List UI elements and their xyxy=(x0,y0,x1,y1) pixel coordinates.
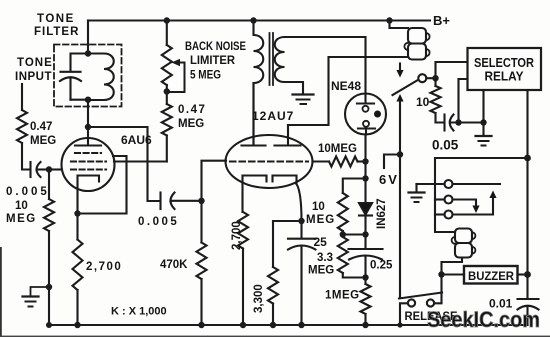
V2 right cathode bracket xyxy=(273,176,297,185)
transformer T1 secondary xyxy=(275,37,303,93)
wire cathode junction to cap 25 xyxy=(300,221,302,238)
junction bottom rail / input branch xyxy=(46,322,52,328)
junction R11 / C4 bottom xyxy=(362,274,368,280)
junction buzzer left xyxy=(438,271,444,277)
svg-text:1MEG: 1MEG xyxy=(325,290,360,302)
ground G1 bottom left xyxy=(23,287,50,307)
wire buzzer junction to buzzer box xyxy=(442,273,465,275)
tone filter dashed enclosure xyxy=(54,45,122,107)
wire R7 to bottom rail xyxy=(242,249,244,326)
junction top rail / transformer primary xyxy=(250,17,256,23)
potentiometer R4 5 MEG back noise limiter xyxy=(162,45,172,85)
wire cathode junction to 3,300 xyxy=(273,221,302,267)
junction bottom rail / R12 xyxy=(362,322,368,328)
neon lamp NE48 xyxy=(345,94,386,135)
junction input grid node xyxy=(46,166,52,172)
wire B+ top rail xyxy=(88,19,430,21)
armature arrow (up) and lead to 6V line xyxy=(396,94,403,155)
junction 10 MEG / ground tap xyxy=(46,284,52,290)
junction 6AU6 plate node xyxy=(85,124,91,130)
relay contact P2 with moving arm arrow down xyxy=(435,196,480,214)
wire rail to 5 MEG pot xyxy=(166,21,168,46)
capacitor C4 0.25 xyxy=(349,249,383,260)
svg-text:BACK NOISE: BACK NOISE xyxy=(185,41,246,53)
wire R3 to bottom rail xyxy=(76,290,78,325)
svg-text:B+: B+ xyxy=(433,13,450,28)
wire V2 right plate to relay coil K1 xyxy=(288,57,408,125)
wire coupling node up to 12AU7 grid xyxy=(202,161,227,201)
wire rail drop to tone filter top node xyxy=(87,21,89,54)
wire R1 to input coupling cap xyxy=(22,143,30,170)
wire R8 to bottom rail xyxy=(272,304,274,326)
svg-text:NE48: NE48 xyxy=(331,79,361,93)
inductor L-filter (right branch of tone filter) xyxy=(88,54,114,101)
R4 wiper arm xyxy=(167,59,185,92)
relay coil K1 (stepping coil) xyxy=(404,28,429,60)
resistor R13 10 ohm xyxy=(431,86,441,113)
box SELECTOR RELAY xyxy=(468,48,542,90)
junction top rail / 5 MEG xyxy=(164,17,170,23)
V2 shared grid (dashed) xyxy=(230,160,308,162)
V1 plate lead and plate bar xyxy=(75,127,101,146)
wire R12 to bottom rail xyxy=(364,314,366,325)
svg-text:10: 10 xyxy=(416,95,430,109)
svg-text:2,700: 2,700 xyxy=(231,221,243,250)
svg-text:25: 25 xyxy=(314,235,328,249)
svg-text:10MEG: 10MEG xyxy=(318,143,357,155)
wire S1 contact to junction xyxy=(426,77,435,79)
wire V2 grid right exit to 10 MEG xyxy=(313,160,330,162)
svg-text:0.005: 0.005 xyxy=(6,186,50,198)
resistor R10 10 MEG xyxy=(338,193,348,231)
wire NE48 bottom to node xyxy=(364,135,366,162)
junction C5 / relay lead xyxy=(455,119,461,125)
svg-text:6AU6: 6AU6 xyxy=(121,133,152,147)
svg-text:6V: 6V xyxy=(379,172,399,187)
resistor R8 3,300 right cathode xyxy=(268,267,278,304)
wire C3 to bottom rail xyxy=(300,246,302,325)
wire armature line down to release switch xyxy=(399,155,401,297)
wire right rail to cap 0.01 xyxy=(526,275,528,299)
diode D1 IN627 xyxy=(359,179,372,235)
V2 right plate xyxy=(275,125,301,146)
relay contact P1 xyxy=(417,180,501,188)
svg-text:10: 10 xyxy=(15,200,28,212)
wire V2 right cathode to junction xyxy=(297,184,302,221)
wire 6V junction stub xyxy=(384,155,400,169)
wire filter bottom node down to 6AU6 plate junction xyxy=(87,100,89,127)
capacitor C3 25 xyxy=(288,239,316,250)
V2 left cathode bracket xyxy=(243,176,267,213)
svg-text:TONE: TONE xyxy=(37,13,75,25)
switch S1 contact xyxy=(418,74,426,82)
junction 12AU7 right cathode xyxy=(298,218,304,224)
svg-text:0.47: 0.47 xyxy=(30,121,52,133)
wire grid node to 6AU6 control grid xyxy=(49,168,62,170)
wire B+ junction to relay coil K1 xyxy=(390,21,409,29)
svg-text:IN627: IN627 xyxy=(376,198,388,229)
wire 6AU6 plate junction to coupling cap (right, down) xyxy=(88,127,160,201)
wire coupling node down to 470K xyxy=(200,201,202,243)
wire R13 to cap 0.05 xyxy=(436,113,445,123)
wire cap node up to selector relay lead 2 xyxy=(459,79,468,123)
junction bottom rail / R8 xyxy=(270,322,276,328)
node TONE INPUT lead xyxy=(21,84,23,110)
wire V1 cathode to R3 xyxy=(76,214,78,240)
switch S1 armature blade xyxy=(393,80,419,95)
junction diode bottom xyxy=(362,231,368,237)
svg-text:BUZZER: BUZZER xyxy=(468,269,514,283)
junction relay ground lead xyxy=(480,119,486,125)
tube V1 6AU6 envelope xyxy=(62,138,115,191)
V1 grid row 1 (dashed) xyxy=(75,152,101,154)
wire NE48 node down xyxy=(364,162,366,179)
V2 left plate xyxy=(242,83,266,146)
capacitor C1 0.005 input xyxy=(31,162,50,177)
wire R10 to junction xyxy=(343,231,366,235)
junction 6AU6 cathode xyxy=(74,210,80,216)
resistor R11 3.3 MEG xyxy=(338,237,348,273)
junction NE48 / 10 MEG xyxy=(362,158,368,164)
svg-text:0.05: 0.05 xyxy=(432,138,459,153)
junction right rail / contact bus xyxy=(524,155,531,162)
junction bottom rail / C3 xyxy=(298,322,304,328)
svg-text:2,700: 2,700 xyxy=(86,261,122,273)
capacitor C2 0.005 coupling to 12AU7 xyxy=(161,193,202,210)
relay contact P3 with moving arm arrow up xyxy=(435,191,497,219)
scan edge artifacts xyxy=(0,247,2,337)
S2 contact left xyxy=(408,299,415,306)
svg-text:5 MEG: 5 MEG xyxy=(190,70,221,82)
junction top rail / relay coil B+ xyxy=(386,17,392,23)
wire R13 top xyxy=(434,78,436,86)
capacitor C5 0.05 xyxy=(445,115,484,131)
svg-text:MEG: MEG xyxy=(306,214,335,226)
wire R9 to NE48 node xyxy=(358,160,366,162)
junction bottom rail / release switch xyxy=(397,322,402,327)
armature pull arrow (down) xyxy=(396,64,403,78)
svg-text:K : X 1,000: K : X 1,000 xyxy=(111,306,167,318)
resistor R2 10 MEG grid xyxy=(44,199,54,231)
resistor R12 1 MEG xyxy=(361,284,371,314)
junction 5 MEG wiper tap xyxy=(164,88,170,94)
ground G2 transformer secondary xyxy=(293,95,314,105)
junction 10 MEG vertical branch xyxy=(362,175,368,181)
svg-text:MEG: MEG xyxy=(30,135,56,147)
svg-text:0.25: 0.25 xyxy=(370,260,393,272)
relay coil K2 xyxy=(452,229,476,258)
svg-text:RELAY: RELAY xyxy=(485,70,525,84)
svg-text:TONE: TONE xyxy=(17,57,53,69)
svg-text:SeekIC.com: SeekIC.com xyxy=(427,307,540,332)
svg-text:0.47: 0.47 xyxy=(178,104,206,116)
junction bottom rail / R3 xyxy=(74,322,80,328)
wire S2 right contact to buzzer junction xyxy=(434,275,441,304)
resistor R9 10 MEG grid-coupling horizontal xyxy=(329,157,358,167)
resistor R7 2,700 left cathode xyxy=(238,212,248,249)
svg-text:3,300: 3,300 xyxy=(253,284,265,313)
junction 6V tap xyxy=(397,151,403,157)
svg-text:0.005: 0.005 xyxy=(138,216,179,228)
wire right rail junction to contact bus xyxy=(435,158,528,232)
box BUZZER xyxy=(464,266,518,284)
capacitor C6 0.01 xyxy=(518,299,539,310)
wire grid node down to 10 MEG xyxy=(48,170,50,200)
junction S1 contact / 10 ohm xyxy=(432,75,438,81)
svg-text:3.3: 3.3 xyxy=(317,252,333,264)
resistor R3 2,700 cathode xyxy=(73,240,83,291)
wire R5 down to screen wire xyxy=(166,136,168,162)
wire branch to 10 MEG vertical xyxy=(343,179,366,194)
svg-text:10: 10 xyxy=(312,201,325,213)
wire junction up to selector relay lead 1 xyxy=(436,62,468,78)
junction R10 / diode xyxy=(340,231,346,237)
svg-text:LIMITER: LIMITER xyxy=(190,55,236,67)
wire R11 bottom to junction xyxy=(343,273,366,278)
ground G4 relay contact 1 xyxy=(409,184,425,202)
junction filter top node xyxy=(85,50,91,56)
resistor R1 0.47 MEG input xyxy=(17,110,27,143)
ground G3 selector relay xyxy=(476,136,492,146)
V1 grid row 3 (dashed) xyxy=(71,168,106,170)
junction bottom rail / R7 xyxy=(240,322,246,328)
svg-text:12AU7: 12AU7 xyxy=(252,109,294,123)
svg-text:MEG: MEG xyxy=(308,265,334,277)
wire buzzer to right rail xyxy=(518,273,528,275)
junction coupling node 470K xyxy=(198,198,204,204)
wire R2 to ground junction and bottom rail xyxy=(48,231,50,325)
wire 470K to bottom rail xyxy=(200,279,202,325)
svg-text:FILTER: FILTER xyxy=(34,26,79,38)
wire K2 bottom to buzzer junction xyxy=(442,258,463,275)
svg-text:SELECTOR: SELECTOR xyxy=(474,56,534,70)
resistor R6 470K grid leak xyxy=(197,243,207,280)
svg-text:MEG: MEG xyxy=(6,213,37,225)
wire selector relay bottom lead to ground xyxy=(482,90,484,136)
wire selector relay right lead down right rail xyxy=(526,90,528,275)
tube V2 12AU7 envelope xyxy=(226,135,313,188)
wire C4 to junction xyxy=(364,257,366,278)
resistor R5 0.47 MEG screen xyxy=(162,104,172,136)
wire NE48 top to transformer secondary xyxy=(285,37,366,94)
wire C6 to bottom rail xyxy=(526,307,528,326)
svg-text:470K: 470K xyxy=(160,259,188,271)
junction bottom rail / 470K xyxy=(198,322,204,328)
transformer T1 core xyxy=(270,33,274,85)
svg-text:MEG: MEG xyxy=(178,118,204,130)
wire V1 suppressor tie to cathode xyxy=(78,156,127,214)
wire bottom ground rail xyxy=(49,324,528,326)
wire V1 screen exit to 0.47 MEG xyxy=(114,160,167,162)
junction buzzer right rail xyxy=(524,271,531,278)
V1 grid row 2 (dashed) xyxy=(71,160,106,162)
junction filter bottom node xyxy=(85,97,91,103)
capacitor C-filter (left branch of tone filter) xyxy=(60,54,88,100)
transformer T1 primary xyxy=(254,21,264,146)
wire junction to 1 MEG xyxy=(364,278,366,285)
V1 cathode bracket and lead xyxy=(78,176,100,214)
switch S2 RELEASE blade xyxy=(399,293,442,299)
wire pot junction xyxy=(166,85,168,104)
wire S2 left contact to bottom rail xyxy=(400,303,408,325)
wire junction to cap 0.25 xyxy=(364,235,366,249)
svg-text:INPUT: INPUT xyxy=(15,71,52,83)
S2 contact right xyxy=(427,299,434,306)
